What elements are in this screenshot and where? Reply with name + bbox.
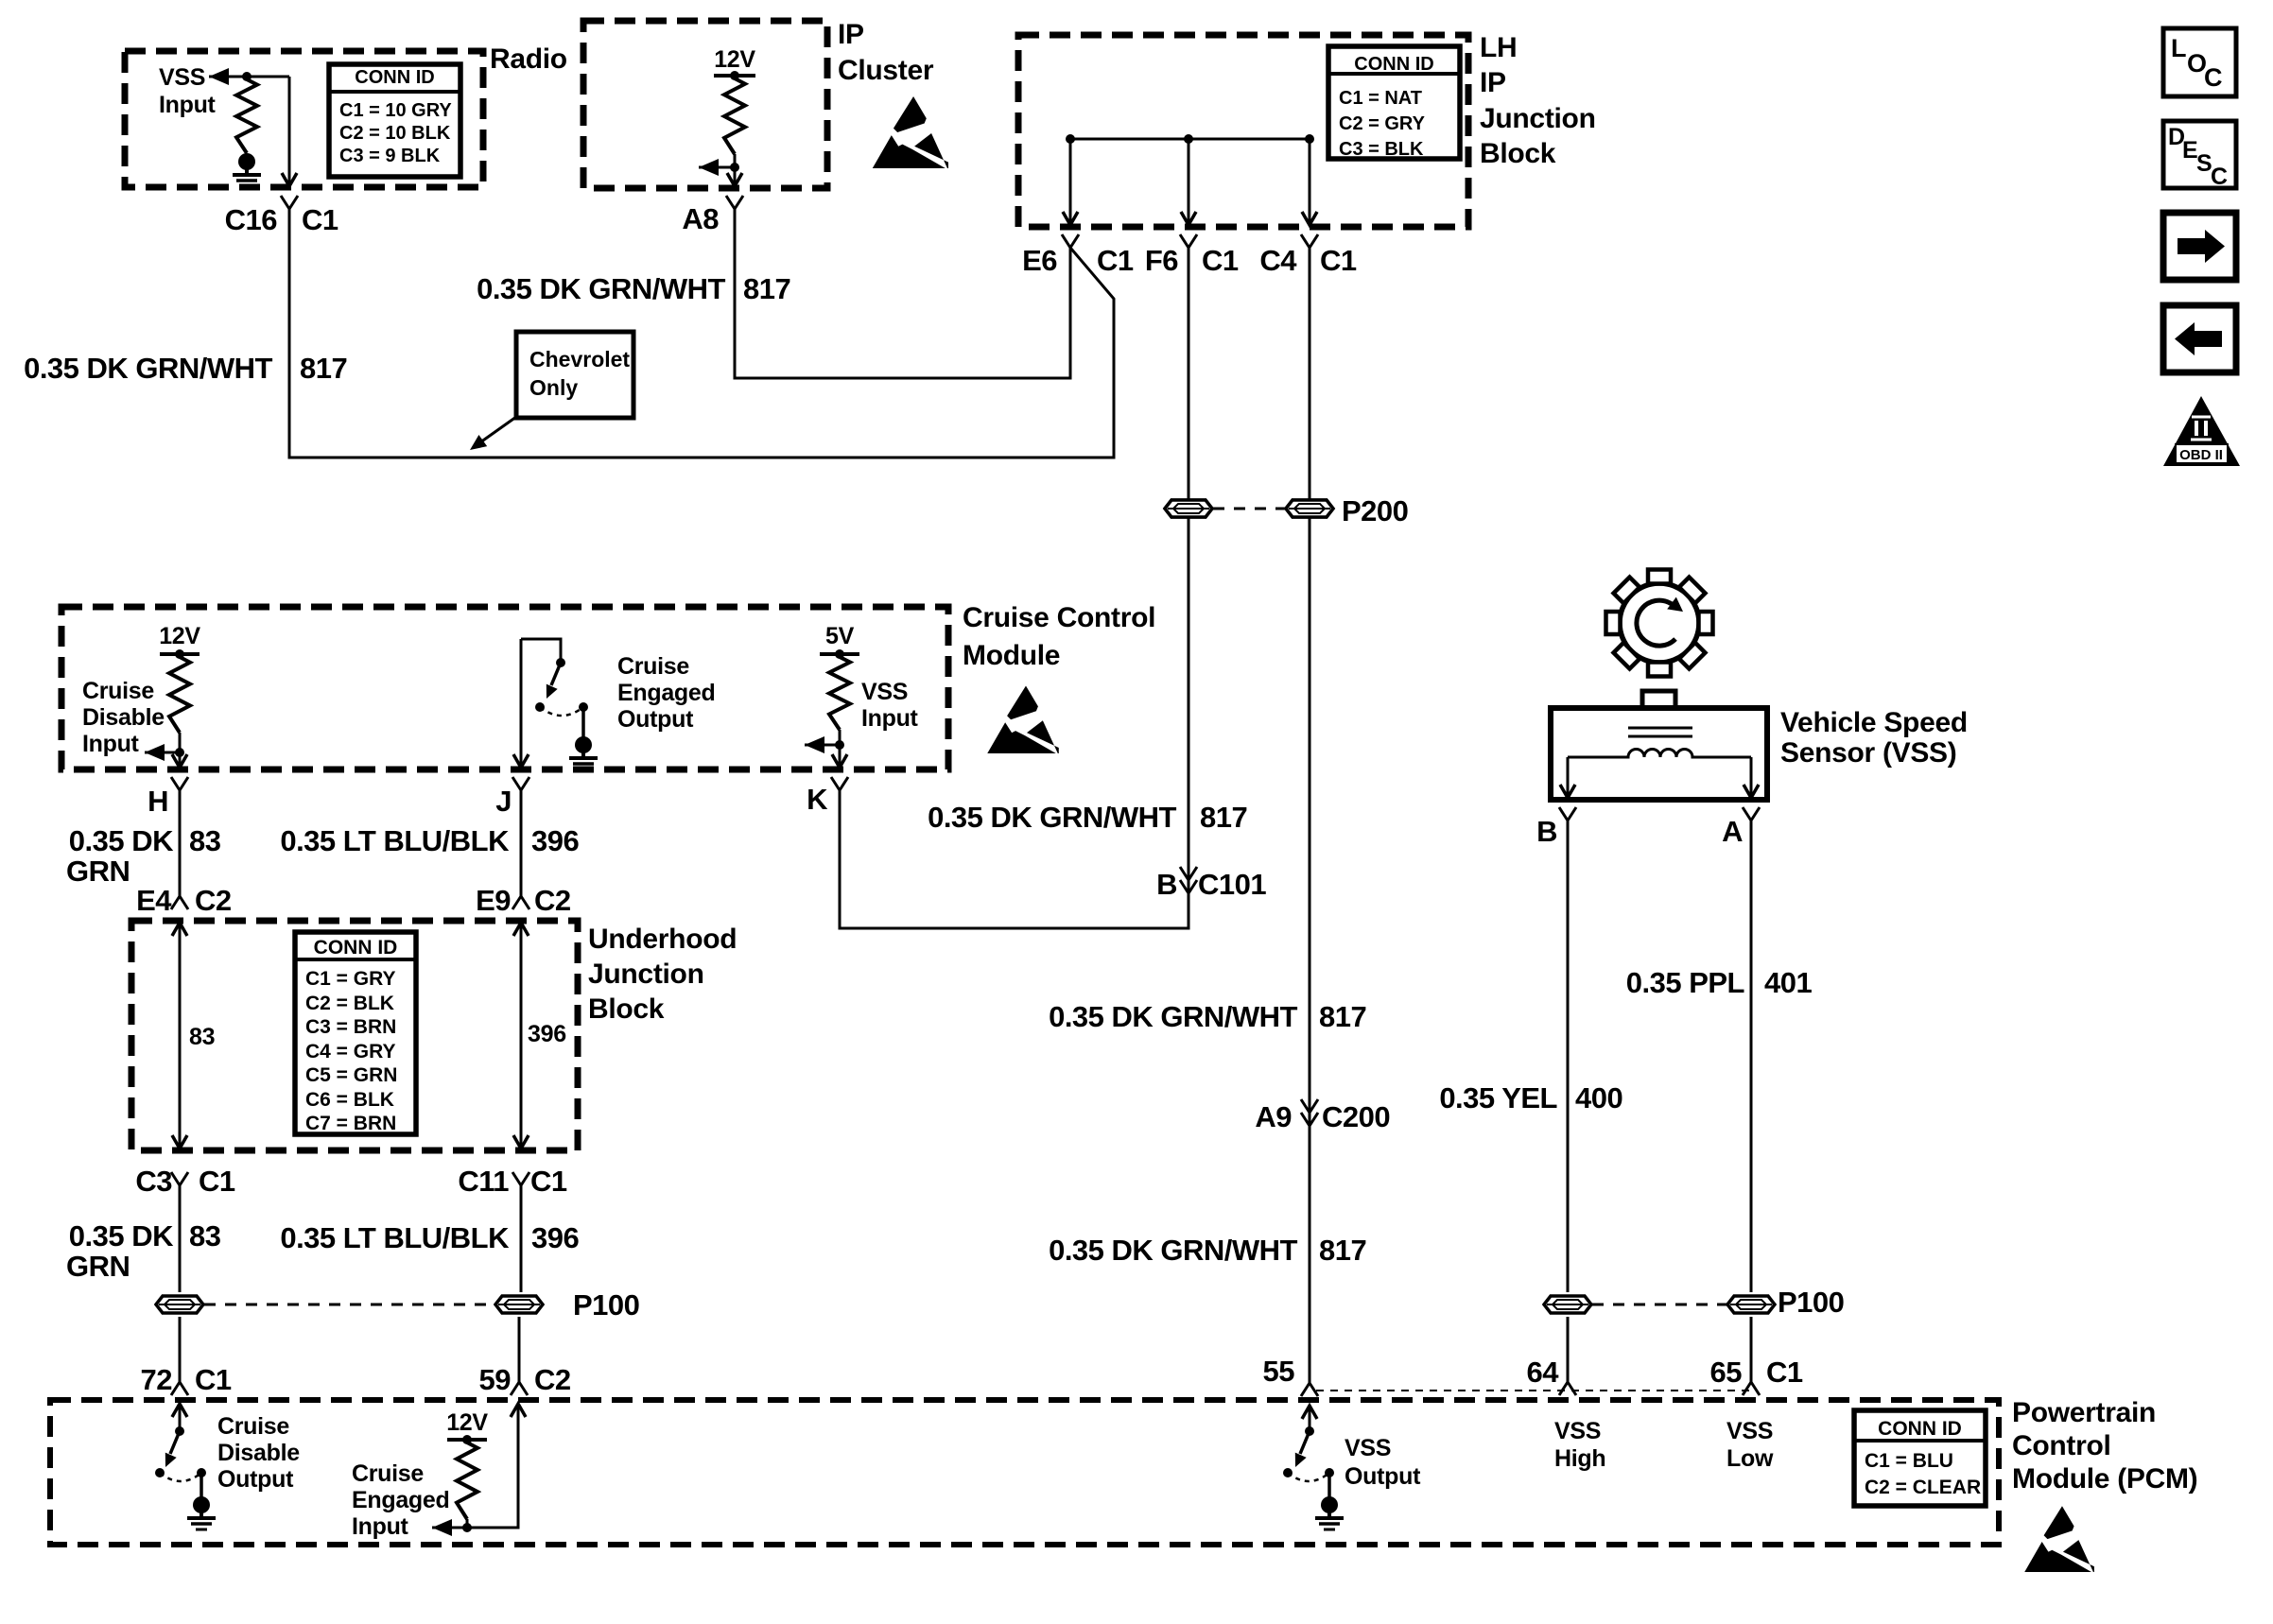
svg-text:0.35 YEL: 0.35 YEL (1439, 1081, 1557, 1114)
arrow J box edge (513, 754, 529, 768)
svg-text:C5 = GRN: C5 = GRN (305, 1064, 397, 1086)
connector A9/C200 double chevron (1301, 1099, 1310, 1113)
LH IP CONN ID table (1328, 46, 1460, 159)
VSS sensor box (1551, 708, 1767, 800)
arrow E6 box edge (1063, 212, 1078, 225)
arrow cruise disable input (145, 744, 165, 761)
svg-text:C1 = BLU: C1 = BLU (1865, 1450, 1953, 1472)
svg-text:0.35 DK GRN/WHT: 0.35 DK GRN/WHT (1049, 1234, 1297, 1267)
wire J riser (520, 639, 523, 768)
svg-text:E4: E4 (136, 884, 172, 917)
wire PCM resistor bottom (466, 1519, 469, 1528)
svg-text:C3 = BRN: C3 = BRN (305, 1016, 396, 1038)
node J switch top (556, 658, 565, 667)
arrow Chevrolet callout (480, 417, 516, 442)
svg-text:396: 396 (531, 1221, 579, 1254)
node radio resistor top (242, 72, 252, 81)
wire 55 stub (1309, 1406, 1311, 1431)
node E6 bus (1066, 134, 1075, 144)
svg-text:C101: C101 (1198, 868, 1266, 901)
connector C3/C1 chevron (171, 1172, 180, 1185)
arrow 83 top (172, 923, 187, 936)
wire C4 to A9 (1309, 248, 1311, 1383)
arrow into radio box edge (282, 173, 297, 186)
wire P100 to 64 (1567, 1317, 1570, 1382)
connector 65 chevron (1743, 1382, 1751, 1395)
svg-text:CONN ID: CONN ID (314, 937, 398, 959)
svg-text:C1 = NAT: C1 = NAT (1339, 88, 1422, 109)
connector K chevron (831, 777, 840, 790)
svg-text:C3: C3 (135, 1165, 172, 1198)
bar 12V (PCM) (447, 1438, 487, 1442)
icon left-arrow box (2163, 305, 2236, 372)
svg-text:396: 396 (531, 824, 579, 857)
svg-text:0.35 DK: 0.35 DK (69, 1219, 174, 1253)
connector 72/C1 chevron (171, 1382, 180, 1395)
svg-text:Chevrolet: Chevrolet (529, 347, 630, 371)
resistor radio VSS pulldown (236, 79, 257, 153)
wire F6 drop (1188, 139, 1190, 223)
arrow H box edge (172, 754, 187, 768)
wire radio C1 drop (288, 77, 291, 186)
svg-text:Underhood: Underhood (588, 924, 737, 955)
svg-text:VSS: VSS (1726, 1418, 1773, 1444)
wire P100 to 65 (1750, 1317, 1753, 1382)
wire 396 inside junction (520, 923, 523, 1149)
node cluster arrow junction (730, 163, 739, 172)
svg-text:817: 817 (300, 352, 347, 385)
svg-text:Low: Low (1726, 1445, 1774, 1472)
svg-text:C6 = BLK: C6 = BLK (305, 1089, 394, 1111)
svg-text:Radio: Radio (490, 43, 567, 75)
gear icon rotation arrow (1637, 600, 1675, 646)
wire radio internal (209, 76, 289, 78)
LH IP junction block dashed box (1018, 35, 1468, 227)
svg-text:0.35 LT BLU/BLK: 0.35 LT BLU/BLK (280, 1221, 510, 1254)
svg-text:K: K (807, 783, 828, 816)
svg-text:Junction: Junction (588, 959, 704, 990)
svg-text:C7 = BRN: C7 = BRN (305, 1113, 396, 1134)
bar 12V (cluster) (714, 74, 755, 78)
splice P200 right overlay (1286, 500, 1333, 517)
svg-text:Only: Only (529, 375, 578, 400)
svg-text:IP: IP (1480, 67, 1506, 98)
svg-text:12V: 12V (159, 623, 200, 649)
svg-text:Input: Input (82, 731, 140, 757)
svg-text:C11: C11 (458, 1165, 509, 1198)
icon OBD II label box (2176, 444, 2228, 463)
svg-text:C: C (2211, 164, 2228, 190)
node J switch contact (579, 702, 588, 712)
svg-text:C3 = 9 BLK: C3 = 9 BLK (339, 146, 441, 166)
splice P200 left overlay (1165, 500, 1212, 517)
bar 5V (cruise) (820, 652, 859, 656)
svg-text:C1 = 10 GRY: C1 = 10 GRY (339, 100, 452, 121)
svg-text:VSS: VSS (159, 64, 205, 91)
svg-text:Input: Input (861, 705, 919, 732)
connector C16/C1 chevron (281, 196, 289, 209)
gear icon ring (1620, 583, 1699, 663)
wire B to P100 (1567, 821, 1570, 1292)
svg-text:C2 = GRY: C2 = GRY (1339, 113, 1426, 134)
wire J switch top (521, 639, 561, 662)
svg-text:Engaged: Engaged (352, 1487, 449, 1513)
connector A8 chevron (726, 196, 735, 209)
arrow 396 top (513, 923, 529, 936)
svg-text:Vehicle Speed: Vehicle Speed (1780, 707, 1968, 738)
svg-text:Cruise: Cruise (82, 678, 154, 704)
svg-text:12V: 12V (714, 46, 755, 73)
svg-text:Module (PCM): Module (PCM) (2012, 1463, 2197, 1494)
connector J chevron (512, 777, 521, 790)
svg-text:C1: C1 (1320, 244, 1357, 277)
wire E6 to radio C1 (817) (289, 209, 1114, 458)
svg-text:Sensor (VSS): Sensor (VSS) (1780, 737, 1956, 769)
wire P100 to 59 (518, 1317, 521, 1382)
node cruise H resistor top (175, 649, 184, 659)
switch lever (cruise engaged) (551, 663, 561, 685)
icon OBD II triangle (2163, 396, 2240, 466)
pcm connector dotted line (1316, 1390, 1756, 1391)
svg-text:C4 = GRY: C4 = GRY (305, 1041, 396, 1063)
wire C3 to P100 (179, 1185, 182, 1292)
svg-text:Block: Block (588, 993, 665, 1025)
ground (radio) (238, 153, 255, 170)
svg-text:817: 817 (1319, 1000, 1366, 1033)
svg-text:C2 = BLK: C2 = BLK (305, 993, 394, 1014)
switch contact arc (disable) (160, 1473, 201, 1481)
splice P100 right-b (1727, 1296, 1775, 1313)
wire 59 riser (467, 1404, 518, 1528)
svg-text:C2 = 10 BLK: C2 = 10 BLK (339, 123, 451, 144)
wire disable contact to ground (200, 1473, 203, 1498)
resistor cluster VSS (724, 78, 745, 154)
connector B chevron (1559, 807, 1568, 821)
svg-text:0.35 DK: 0.35 DK (69, 824, 174, 857)
svg-text:817: 817 (1200, 801, 1247, 834)
svg-text:Cruise: Cruise (217, 1413, 289, 1440)
arrow VSS input (cluster) (699, 159, 719, 176)
underhood CONN ID table (295, 932, 416, 1134)
wire K to C101 (840, 790, 1189, 928)
node cruise H arrow junction (175, 748, 184, 757)
node PCM resistor bottom (462, 1523, 472, 1532)
svg-text:E6: E6 (1022, 244, 1057, 277)
arrow F6 box edge (1181, 212, 1196, 225)
arrow 59 inside PCM (511, 1404, 526, 1417)
svg-text:IP: IP (838, 19, 864, 50)
node VSS switch top (1305, 1426, 1314, 1436)
icon right-arrow (2178, 230, 2225, 263)
connector E6/C1 chevron (1062, 234, 1070, 248)
connector F6/C1 chevron (1180, 234, 1189, 248)
arrow 83 bottom (172, 1135, 187, 1149)
VSS sensor tab (1642, 691, 1675, 709)
svg-text:0.35 DK GRN/WHT: 0.35 DK GRN/WHT (928, 801, 1176, 834)
switch contact arc (cruise) (540, 707, 583, 716)
IP cluster dashed box (583, 21, 827, 188)
svg-text:C4: C4 (1259, 244, 1297, 277)
connector 64 chevron (1559, 1382, 1568, 1395)
svg-text:Cluster: Cluster (838, 55, 934, 86)
svg-text:C1: C1 (195, 1363, 232, 1396)
svg-text:0.35 DK GRN/WHT: 0.35 DK GRN/WHT (1049, 1000, 1297, 1033)
svg-text:CONN ID: CONN ID (355, 67, 434, 88)
svg-text:65: 65 (1710, 1356, 1743, 1389)
resistor cruise engaged input (457, 1443, 477, 1519)
ground (VSS output) (1321, 1496, 1338, 1513)
arrow VSS input (cruise) (805, 736, 824, 753)
arrow 72 inside PCM (172, 1404, 187, 1417)
wire F6 to C101 (1188, 248, 1190, 928)
svg-text:S: S (2196, 150, 2212, 177)
svg-text:Control: Control (2012, 1430, 2111, 1461)
svg-text:C3 = BLK: C3 = BLK (1339, 139, 1424, 160)
splice P200 link (1213, 508, 1285, 510)
svg-text:C1: C1 (1202, 244, 1239, 277)
wire 72 stub (179, 1404, 182, 1431)
cruise control module dashed box (61, 607, 948, 769)
svg-text:GRN: GRN (66, 1250, 130, 1283)
node cluster resistor top (730, 71, 739, 80)
svg-text:C200: C200 (1322, 1100, 1390, 1133)
svg-text:Output: Output (1345, 1463, 1421, 1490)
svg-text:CONN ID: CONN ID (1354, 54, 1433, 75)
splice P200 left (1165, 500, 1212, 517)
arrow K box edge (832, 754, 847, 768)
splice P100 right-a (1544, 1296, 1591, 1313)
svg-text:Output: Output (617, 706, 694, 733)
wire E6 drop (1069, 139, 1072, 223)
wire C11 to P100 (520, 1185, 523, 1292)
wire K resistor to edge (839, 730, 842, 768)
svg-text:A: A (1722, 815, 1743, 848)
wire cluster resistor to arrow (734, 154, 737, 186)
switch lever (VSS output) (1300, 1431, 1310, 1454)
node VSS switch contact (1325, 1468, 1334, 1477)
arrow cruise engaged input (432, 1519, 452, 1536)
radio CONN ID table (329, 64, 460, 177)
splice P100 left link (204, 1304, 495, 1306)
svg-text:Engaged: Engaged (617, 680, 715, 706)
svg-text:C2: C2 (195, 884, 232, 917)
wire contact to ground (581, 707, 585, 737)
svg-text:0.35 LT BLU/BLK: 0.35 LT BLU/BLK (280, 824, 510, 857)
splice P100 left-b (495, 1296, 543, 1313)
svg-text:P100: P100 (573, 1288, 639, 1322)
wire 83 inside junction (179, 923, 182, 1149)
svg-text:C2: C2 (534, 884, 571, 917)
connector A chevron (1743, 807, 1751, 821)
svg-text:12V: 12V (446, 1409, 488, 1436)
switch lever (cruise disable) (170, 1431, 180, 1454)
svg-text:C1: C1 (302, 203, 338, 236)
svg-text:Cruise Control: Cruise Control (963, 602, 1155, 633)
wire J to E9 (520, 790, 523, 896)
svg-text:C2 = CLEAR: C2 = CLEAR (1865, 1477, 1981, 1498)
svg-text:Junction: Junction (1480, 103, 1596, 134)
svg-text:C: C (2204, 63, 2223, 92)
svg-text:0.35 DK GRN/WHT: 0.35 DK GRN/WHT (24, 352, 272, 385)
icon DESC box (2163, 121, 2236, 188)
node disable switch pivot (155, 1468, 165, 1477)
svg-text:F6: F6 (1145, 244, 1178, 277)
svg-text:83: 83 (189, 1219, 221, 1253)
svg-text:E: E (2182, 137, 2197, 164)
node F6 bus (1184, 134, 1193, 144)
ESD symbol (PCM) (2044, 1506, 2074, 1539)
svg-text:Powertrain: Powertrain (2012, 1397, 2156, 1428)
arrow A box edge (1744, 785, 1759, 798)
node PCM resistor top (462, 1435, 472, 1444)
svg-text:401: 401 (1764, 966, 1812, 999)
svg-text:C1 = GRY: C1 = GRY (305, 968, 396, 990)
connector 59/C2 chevron (511, 1382, 519, 1395)
svg-text:C1: C1 (530, 1165, 567, 1198)
svg-text:VSS: VSS (1554, 1418, 1601, 1444)
switch contact arc (VSS) (1288, 1473, 1329, 1481)
svg-text:P100: P100 (1778, 1286, 1844, 1319)
node VSS switch pivot (1283, 1468, 1293, 1477)
resistor cruise disable (169, 657, 190, 733)
arrow 55 inside PCM (1302, 1406, 1317, 1419)
svg-text:55: 55 (1263, 1355, 1295, 1388)
wire H resistor to edge (179, 733, 182, 768)
wire VSS A lead (1750, 757, 1753, 798)
connector B/C101 double chevron (1180, 867, 1189, 880)
wire VSS B lead (1567, 757, 1570, 798)
powertrain control module dashed box (50, 1400, 1999, 1545)
svg-text:E9: E9 (476, 884, 511, 917)
svg-text:GRN: GRN (66, 855, 130, 888)
resistor cruise VSS input (829, 657, 850, 730)
gear icon teeth (1648, 570, 1671, 584)
svg-text:L: L (2171, 34, 2187, 62)
VSS sensor core plates (1628, 727, 1692, 730)
svg-text:VSS: VSS (1345, 1435, 1391, 1461)
svg-text:Disable: Disable (217, 1440, 300, 1466)
ground (cruise engaged) (575, 736, 592, 753)
svg-text:83: 83 (189, 824, 221, 857)
node C4 bus (1305, 134, 1314, 144)
wire C4 drop (1309, 139, 1311, 223)
wire A to P100 (1750, 821, 1753, 1292)
arrow C4 box edge (1302, 212, 1317, 225)
svg-text:Disable: Disable (82, 704, 165, 731)
svg-text:A8: A8 (682, 202, 719, 235)
connector C11/C1 chevron (512, 1172, 521, 1185)
node J switch pivot (535, 702, 545, 712)
svg-text:C2: C2 (534, 1363, 571, 1396)
arrow B box edge (1560, 785, 1575, 798)
connector C4/C1 chevron (1301, 234, 1310, 248)
svg-text:P200: P200 (1342, 494, 1408, 527)
svg-text:VSS: VSS (861, 679, 908, 705)
arrow 396 bottom (513, 1135, 529, 1149)
wire H to E4 (179, 790, 182, 896)
PCM CONN ID table (1854, 1410, 1986, 1506)
arrow into cluster box edge (727, 173, 742, 186)
node cruise K resistor top (835, 649, 844, 659)
svg-text:C1: C1 (1097, 244, 1134, 277)
ESD symbol (cluster) (894, 96, 927, 132)
splice P200 right (1286, 500, 1333, 517)
svg-text:Cruise: Cruise (617, 653, 689, 680)
svg-text:OBD II: OBD II (2179, 447, 2223, 463)
wire A8 to E6 (735, 209, 1070, 378)
svg-text:Module: Module (963, 640, 1060, 671)
wire junction bus (1070, 138, 1310, 141)
svg-text:B: B (1156, 868, 1177, 901)
svg-text:64: 64 (1527, 1356, 1560, 1389)
arrow VSS input (radio) (209, 68, 229, 85)
svg-text:Input: Input (159, 92, 217, 118)
splice P100 right link (1592, 1304, 1726, 1306)
svg-text:Block: Block (1480, 138, 1556, 169)
svg-text:CONN ID: CONN ID (1878, 1418, 1962, 1440)
svg-text:B: B (1536, 815, 1557, 848)
connector E4/C2 chevron (171, 896, 180, 909)
svg-text:C1: C1 (199, 1165, 235, 1198)
splice P100 left-a (156, 1296, 203, 1313)
icon right-arrow box (2163, 213, 2236, 280)
svg-text:83: 83 (189, 1024, 215, 1050)
svg-text:817: 817 (743, 272, 790, 305)
svg-text:59: 59 (479, 1363, 512, 1396)
node disable switch contact (197, 1468, 206, 1477)
svg-text:0.35 PPL: 0.35 PPL (1626, 966, 1744, 999)
svg-text:0.35 DK GRN/WHT: 0.35 DK GRN/WHT (477, 272, 725, 305)
connector E9/C2 chevron (512, 896, 521, 909)
svg-text:High: High (1554, 1445, 1605, 1472)
svg-text:Input: Input (352, 1513, 409, 1540)
svg-text:J: J (495, 785, 512, 818)
svg-text:Output: Output (217, 1466, 294, 1493)
underhood junction block dashed box (131, 921, 578, 1150)
svg-text:72: 72 (141, 1363, 172, 1396)
icon OBD II pillars (2191, 417, 2212, 440)
svg-text:LH: LH (1480, 32, 1517, 63)
node disable switch top (175, 1426, 184, 1436)
radio module dashed box (125, 51, 483, 187)
svg-text:817: 817 (1319, 1234, 1366, 1267)
svg-text:A9: A9 (1255, 1100, 1292, 1133)
svg-text:5V: 5V (825, 623, 855, 649)
VSS sensor coil (1568, 750, 1751, 757)
wire P100 to 72 (179, 1317, 182, 1382)
svg-text:400: 400 (1575, 1081, 1622, 1114)
wire VSS contact to ground (1327, 1473, 1331, 1498)
icon left-arrow (2175, 322, 2222, 355)
svg-text:C16: C16 (225, 203, 278, 236)
icon LOC box (2163, 28, 2236, 96)
bar 12V (cruise) (160, 652, 200, 656)
node cruise K arrow junction (835, 740, 844, 750)
Chevrolet Only callout box (516, 332, 633, 418)
connector 55 chevron (1301, 1383, 1310, 1396)
svg-text:C1: C1 (1766, 1356, 1803, 1389)
connector H chevron (171, 777, 180, 790)
svg-text:H: H (147, 785, 168, 818)
svg-text:396: 396 (528, 1021, 566, 1047)
ESD symbol (cruise) (1007, 685, 1038, 719)
ground (cruise disable) (193, 1496, 210, 1513)
svg-text:Cruise: Cruise (352, 1460, 424, 1487)
